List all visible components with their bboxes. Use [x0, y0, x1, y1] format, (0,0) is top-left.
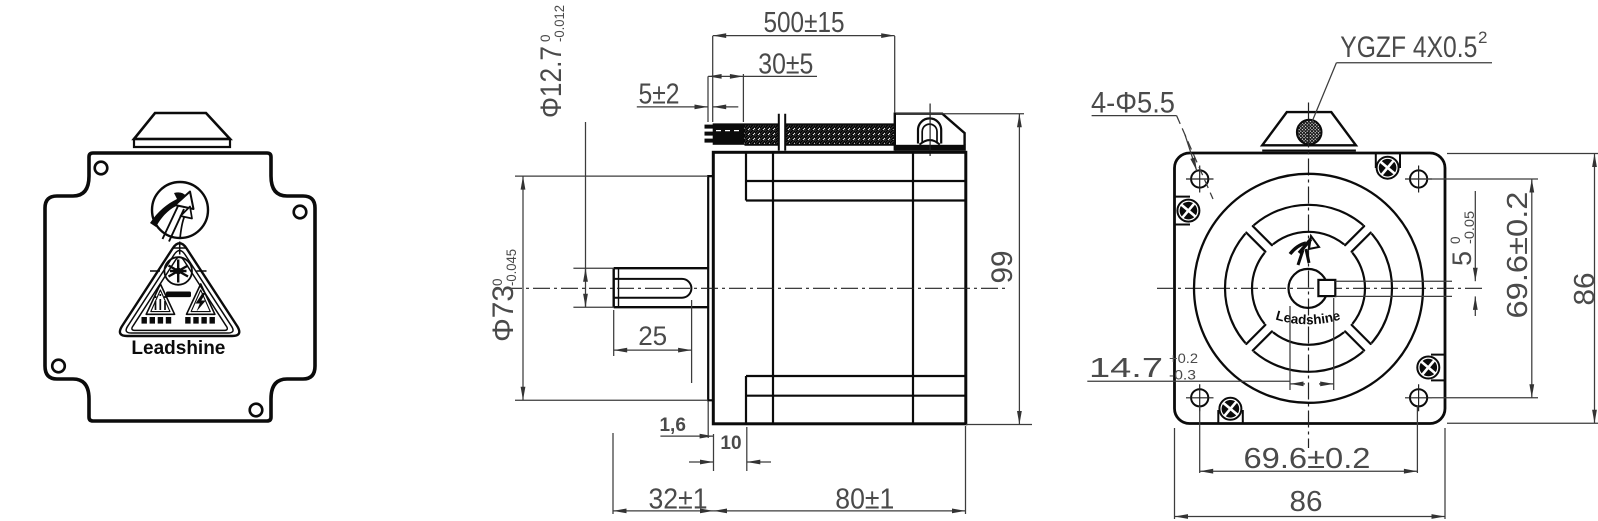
- svg-text:-0.045: -0.045: [504, 249, 519, 286]
- svg-text:86: 86: [1569, 273, 1598, 306]
- svg-text:Φ73: Φ73: [487, 285, 520, 342]
- svg-text:4-Φ5.5: 4-Φ5.5: [1091, 87, 1175, 120]
- svg-text:0: 0: [1448, 236, 1463, 244]
- svg-text:-0.05: -0.05: [1462, 211, 1477, 244]
- svg-text:14.7: 14.7: [1089, 352, 1163, 383]
- svg-text:1,6: 1,6: [659, 415, 685, 436]
- svg-text:5: 5: [1447, 251, 1477, 266]
- svg-text:500±15: 500±15: [764, 7, 845, 39]
- svg-text:0: 0: [538, 34, 553, 42]
- svg-text:5±2: 5±2: [639, 79, 680, 111]
- svg-text:-0.012: -0.012: [552, 5, 567, 42]
- svg-text:86: 86: [1290, 486, 1323, 518]
- svg-text:YGZF 4X0.5: YGZF 4X0.5: [1340, 31, 1477, 64]
- svg-text:10: 10: [720, 433, 741, 454]
- svg-text:Φ12.7: Φ12.7: [535, 46, 568, 118]
- svg-text:+0.2: +0.2: [1169, 351, 1198, 366]
- svg-text:0: 0: [490, 278, 505, 286]
- svg-text:99: 99: [986, 251, 1019, 284]
- svg-text:30±5: 30±5: [758, 49, 813, 81]
- svg-text:69.6±0.2: 69.6±0.2: [1502, 192, 1534, 319]
- svg-text:69.6±0.2: 69.6±0.2: [1244, 443, 1371, 475]
- svg-text:Leadshine: Leadshine: [131, 337, 225, 359]
- svg-text:2: 2: [1478, 28, 1487, 47]
- svg-text:-0.3: -0.3: [1169, 368, 1196, 383]
- svg-text:25: 25: [638, 321, 667, 351]
- svg-text:80±1: 80±1: [835, 484, 894, 516]
- svg-text:32±1: 32±1: [649, 484, 708, 516]
